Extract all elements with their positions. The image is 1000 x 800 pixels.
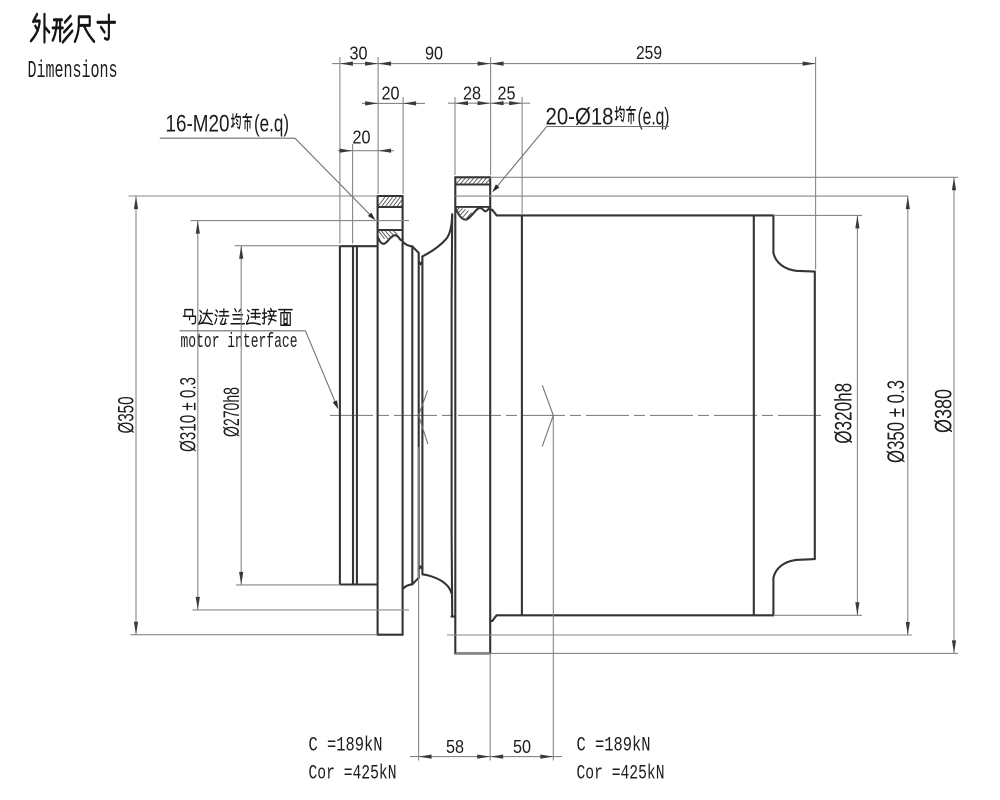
ext line 28 left: [454, 97, 456, 175]
dim 20 (pilot depth): [338, 150, 394, 152]
motor pilot cylinder left face: [339, 246, 341, 584]
svg-text:Ø270h8: Ø270h8: [219, 387, 244, 437]
dim dia270h8: [240, 246, 242, 585]
chamfer to seam bottom: [412, 578, 418, 585]
dim 20 (flange thickness): [362, 102, 425, 104]
end boss right face: [814, 272, 816, 559]
label motor interface: [183, 310, 195, 324]
ext line 259 right: [815, 57, 817, 270]
svg-text:Ø310 ± 0.3: Ø310 ± 0.3: [176, 377, 201, 452]
flange F1 casting wave top: [378, 235, 403, 244]
flange F1 left face: [377, 196, 379, 635]
dim dia350 right: [907, 196, 909, 635]
drum right corner line bottom: [772, 578, 774, 616]
dim 25: [491, 101, 504, 105]
motor pilot cylinder top edge: [340, 245, 378, 247]
flange F2 bolt hole bottom boundary: [455, 206, 490, 208]
shoulder corner top: [403, 242, 413, 247]
svg-text:(e.q): (e.q): [254, 111, 289, 138]
ext line dia320 top: [773, 214, 862, 216]
flange F2 right face: [489, 177, 491, 653]
dim dia350 left: [135, 196, 137, 635]
flange F2 hub face: [451, 214, 454, 616]
dim 30: [332, 63, 386, 65]
title 外形尺寸: [31, 14, 49, 42]
flange F1 hatch band upper: [378, 197, 385, 206]
leader 16-M20: [160, 137, 295, 139]
dim dia380: [953, 177, 955, 653]
svg-text:58: 58: [446, 737, 464, 757]
flange F1 bolt hole bottom boundary: [378, 229, 403, 231]
center break mark left: [419, 391, 428, 445]
svg-text:20: 20: [382, 84, 400, 104]
flange F2 hatch band upper: [456, 178, 461, 184]
ext line 30 left: [339, 57, 341, 244]
ext line dia350 top: [129, 195, 378, 197]
leader 20-dia18: [547, 126, 669, 128]
leader motor interface: [180, 330, 306, 332]
drum left chamfer top: [490, 210, 496, 216]
seam line left: [418, 253, 420, 578]
ext line dia310 top: [191, 220, 410, 222]
flange F1 right face: [402, 196, 404, 635]
chamfer to seam top: [412, 246, 418, 253]
motor pilot cylinder bottom edge: [340, 583, 378, 585]
svg-text:25: 25: [498, 84, 516, 104]
ext line dia380 top: [490, 176, 958, 178]
ext line 20 row3 left: [352, 144, 354, 244]
svg-text:Dimensions: Dimensions: [28, 58, 118, 85]
svg-text:259: 259: [636, 43, 662, 63]
dim 28: [448, 102, 530, 104]
pilot ring joint line 1: [352, 246, 354, 584]
end boss fillet top: [773, 253, 814, 272]
flange F2 top edge: [455, 176, 490, 178]
svg-text:Ø350 ± 0.3: Ø350 ± 0.3: [883, 380, 910, 463]
flange F2 bolt hole top boundary: [455, 184, 490, 186]
drum right corner line: [772, 215, 774, 253]
ext line dia310 bottom: [193, 609, 410, 611]
svg-text:Cor =425kN: Cor =425kN: [309, 763, 397, 786]
drum bottom surface: [497, 614, 774, 616]
bell fillet bottom: [422, 574, 451, 593]
ext line 50 right: [552, 415, 554, 760]
dim dia310: [197, 221, 199, 610]
bell fillet top: [422, 215, 452, 256]
svg-text:30: 30: [350, 44, 368, 64]
svg-text:Ø380: Ø380: [930, 389, 957, 433]
drum top surface: [497, 214, 774, 216]
flange F2 left face: [454, 177, 456, 653]
svg-text:Ø350: Ø350: [114, 397, 139, 434]
centerline: [330, 414, 824, 416]
ext line 30/90 shared: [377, 57, 379, 194]
dim 58: [410, 756, 562, 758]
ext line dia350r bottom: [447, 634, 912, 636]
dim 50: [490, 755, 503, 759]
flange F1 bolt hole top boundary: [378, 206, 403, 208]
svg-text:50: 50: [513, 737, 531, 757]
flange F2 bottom edge: [455, 652, 490, 654]
svg-text:C =189kN: C =189kN: [309, 735, 383, 758]
svg-text:16-M20: 16-M20: [166, 111, 230, 138]
ext line dia270 top: [235, 245, 341, 247]
shoulder corner bottom: [403, 584, 413, 589]
ext line 20 row2 right: [402, 97, 404, 194]
shoulder cylinder edge: [411, 246, 413, 584]
svg-text:90: 90: [425, 44, 443, 64]
svg-text:Cor =425kN: Cor =425kN: [577, 763, 665, 786]
svg-text:Ø320h8: Ø320h8: [831, 383, 858, 444]
drum end face: [753, 215, 755, 615]
svg-text:20: 20: [353, 128, 371, 148]
ext line 25 right: [521, 97, 523, 215]
pilot ring joint line 2: [356, 246, 358, 584]
ext line dia350 bottom: [131, 634, 378, 636]
flange F1 hatch band lower: [379, 231, 385, 239]
drum rim inner line: [521, 215, 523, 615]
svg-text:28: 28: [463, 84, 481, 104]
center break mark right: [542, 385, 553, 446]
svg-text:C =189kN: C =189kN: [577, 735, 651, 758]
ext line dia270 bottom: [236, 584, 341, 586]
ext line bolt circle F2 / dia350r top: [455, 195, 908, 197]
seam V notch bottom: [419, 567, 423, 569]
hub bottom step edge: [452, 616, 456, 618]
drum left chamfer bottom: [490, 615, 496, 621]
ext line 58/50 shared: [489, 653, 491, 760]
flange F1 top edge: [378, 195, 403, 197]
ext line dia320 bottom: [773, 614, 862, 616]
ext line 90/259 shared: [490, 57, 492, 175]
dim 90: [378, 63, 491, 65]
end boss fillet bottom: [773, 559, 814, 578]
dim dia320h8 right: [856, 215, 858, 615]
ext line 58 left: [418, 447, 420, 761]
seam line right: [421, 256, 423, 574]
seam V notch top: [419, 262, 423, 264]
ext line dia380 bottom: [455, 652, 958, 654]
flange F1 bottom edge: [378, 634, 403, 636]
dim 259: [491, 63, 816, 65]
flange F2 hatch band lower: [457, 208, 460, 211]
flange F2 casting wave top: [455, 207, 490, 219]
